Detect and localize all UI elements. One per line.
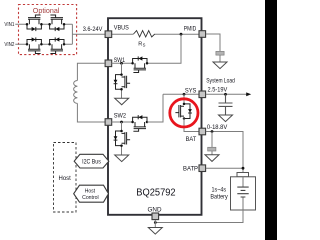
node SYS internal junction — [183, 93, 186, 96]
resistor RS — [134, 31, 155, 37]
wire SYS node to BATFET — [183, 94, 185, 104]
wire SW2 to Q4 — [121, 122, 123, 155]
pin SYS — [199, 91, 206, 98]
transistor Q6 (VIN1 FET B) — [48, 15, 65, 31]
wire SW1 to Q2 — [121, 63, 123, 98]
capacitor C1 (PMID) — [216, 51, 224, 55]
transistor Q3 (SW2 high-side) — [131, 115, 148, 131]
wire inductor to SW2 pin — [77, 103, 104, 122]
wire BAT row to battery — [206, 132, 243, 173]
ground (SYS cap) — [219, 115, 233, 122]
wire BATFET to BAT pin — [184, 119, 199, 132]
ground (Q2 source) — [115, 98, 129, 105]
wire BAT cap branch — [211, 132, 213, 155]
wire VBUS row — [112, 33, 199, 35]
svg-text:Control: Control — [82, 195, 99, 201]
wire PMID to capacitor — [206, 34, 220, 62]
red dashed box (Optional input FETs) — [19, 5, 77, 55]
svg-text:2.5-19V: 2.5-19V — [208, 87, 228, 94]
pin VBUS — [105, 31, 112, 38]
ground (GND pin) — [148, 228, 162, 235]
transistor Q5 (VIN1 FET A) — [26, 15, 43, 31]
wire GND pin stub — [154, 220, 156, 228]
ground (BAT cap) — [205, 155, 219, 162]
svg-text:Battery: Battery — [210, 195, 227, 201]
pin BATP — [199, 165, 206, 172]
svg-text:3.6-24V: 3.6-24V — [83, 27, 103, 33]
pin PMID — [199, 31, 206, 38]
transistor Q2 (SW1 low-side) — [114, 73, 131, 90]
pin BAT — [199, 128, 206, 135]
red highlight circle — [170, 99, 198, 127]
svg-text:1s~4s: 1s~4s — [212, 188, 227, 194]
capacitor C2 (SYS) — [219, 94, 233, 115]
pin SW2 — [105, 119, 112, 126]
arrow system load — [246, 92, 251, 96]
node GND junction — [154, 221, 157, 224]
node VBUS-PMID junction — [180, 33, 183, 36]
node BAT cap junction — [211, 130, 214, 133]
svg-text:GND: GND — [148, 208, 163, 214]
node battery positive junction — [242, 167, 245, 170]
ground (Q4 source) — [115, 155, 129, 162]
wire SW1 row — [112, 62, 133, 64]
svg-text:System Load: System Load — [206, 78, 235, 85]
wire VIN bus to VBUS pin — [72, 24, 104, 44]
svg-text:SW2: SW2 — [114, 114, 127, 120]
transistor QBAT (BATFET) — [175, 103, 192, 120]
bus I2C — [74, 154, 109, 168]
svg-text:PMID: PMID — [184, 26, 197, 32]
host box — [54, 143, 77, 213]
transistor Q1 (SW1 high-side) — [131, 56, 148, 72]
wire Q3 to SYS node — [147, 94, 199, 122]
battery BT1 (1s-4s) — [231, 173, 256, 211]
node SW2 junction — [120, 121, 123, 124]
wire VIN1 — [15, 23, 72, 25]
svg-text:I2C Bus: I2C Bus — [82, 160, 101, 166]
svg-text:Host: Host — [59, 176, 72, 182]
transistor Q7 (VIN2 FET A) — [26, 37, 43, 53]
wire SYS to system load — [206, 93, 247, 95]
svg-text:Host: Host — [85, 188, 96, 194]
node SYS cap junction — [224, 93, 227, 96]
svg-text:BATP: BATP — [183, 167, 198, 173]
transistor Q8 (VIN2 FET B) — [48, 37, 65, 53]
svg-text:BQ25792: BQ25792 — [136, 187, 176, 198]
wire SW2 row — [112, 121, 133, 123]
node SW1 junction — [120, 62, 123, 65]
wire VIN2 — [15, 43, 72, 45]
svg-text:VIN1: VIN1 — [4, 22, 14, 28]
svg-text:Optional: Optional — [33, 8, 60, 15]
transistor Q4 (SW2 low-side) — [114, 130, 131, 147]
pin GND — [152, 213, 159, 220]
wire Q1 drain to VBUS node — [147, 34, 181, 63]
svg-text:0-18.8V: 0-18.8V — [207, 124, 228, 131]
inductor L1 — [74, 81, 78, 104]
wire BATP to battery — [206, 167, 243, 169]
ground (PMID cap) — [213, 62, 227, 69]
svg-text:S: S — [143, 43, 146, 48]
op chip U1 BQ25792 outline — [108, 18, 202, 215]
svg-text:VBUS: VBUS — [114, 25, 129, 31]
pin SW1 — [105, 60, 112, 67]
bus Host Control — [74, 185, 109, 202]
wire battery negative return to GND — [155, 210, 243, 223]
svg-text:SYS: SYS — [185, 88, 197, 94]
svg-text:VIN2: VIN2 — [4, 42, 14, 48]
svg-text:BAT: BAT — [186, 137, 197, 143]
wire SW1 pin to inductor — [77, 63, 104, 80]
capacitor C3 (BAT) — [208, 147, 216, 151]
